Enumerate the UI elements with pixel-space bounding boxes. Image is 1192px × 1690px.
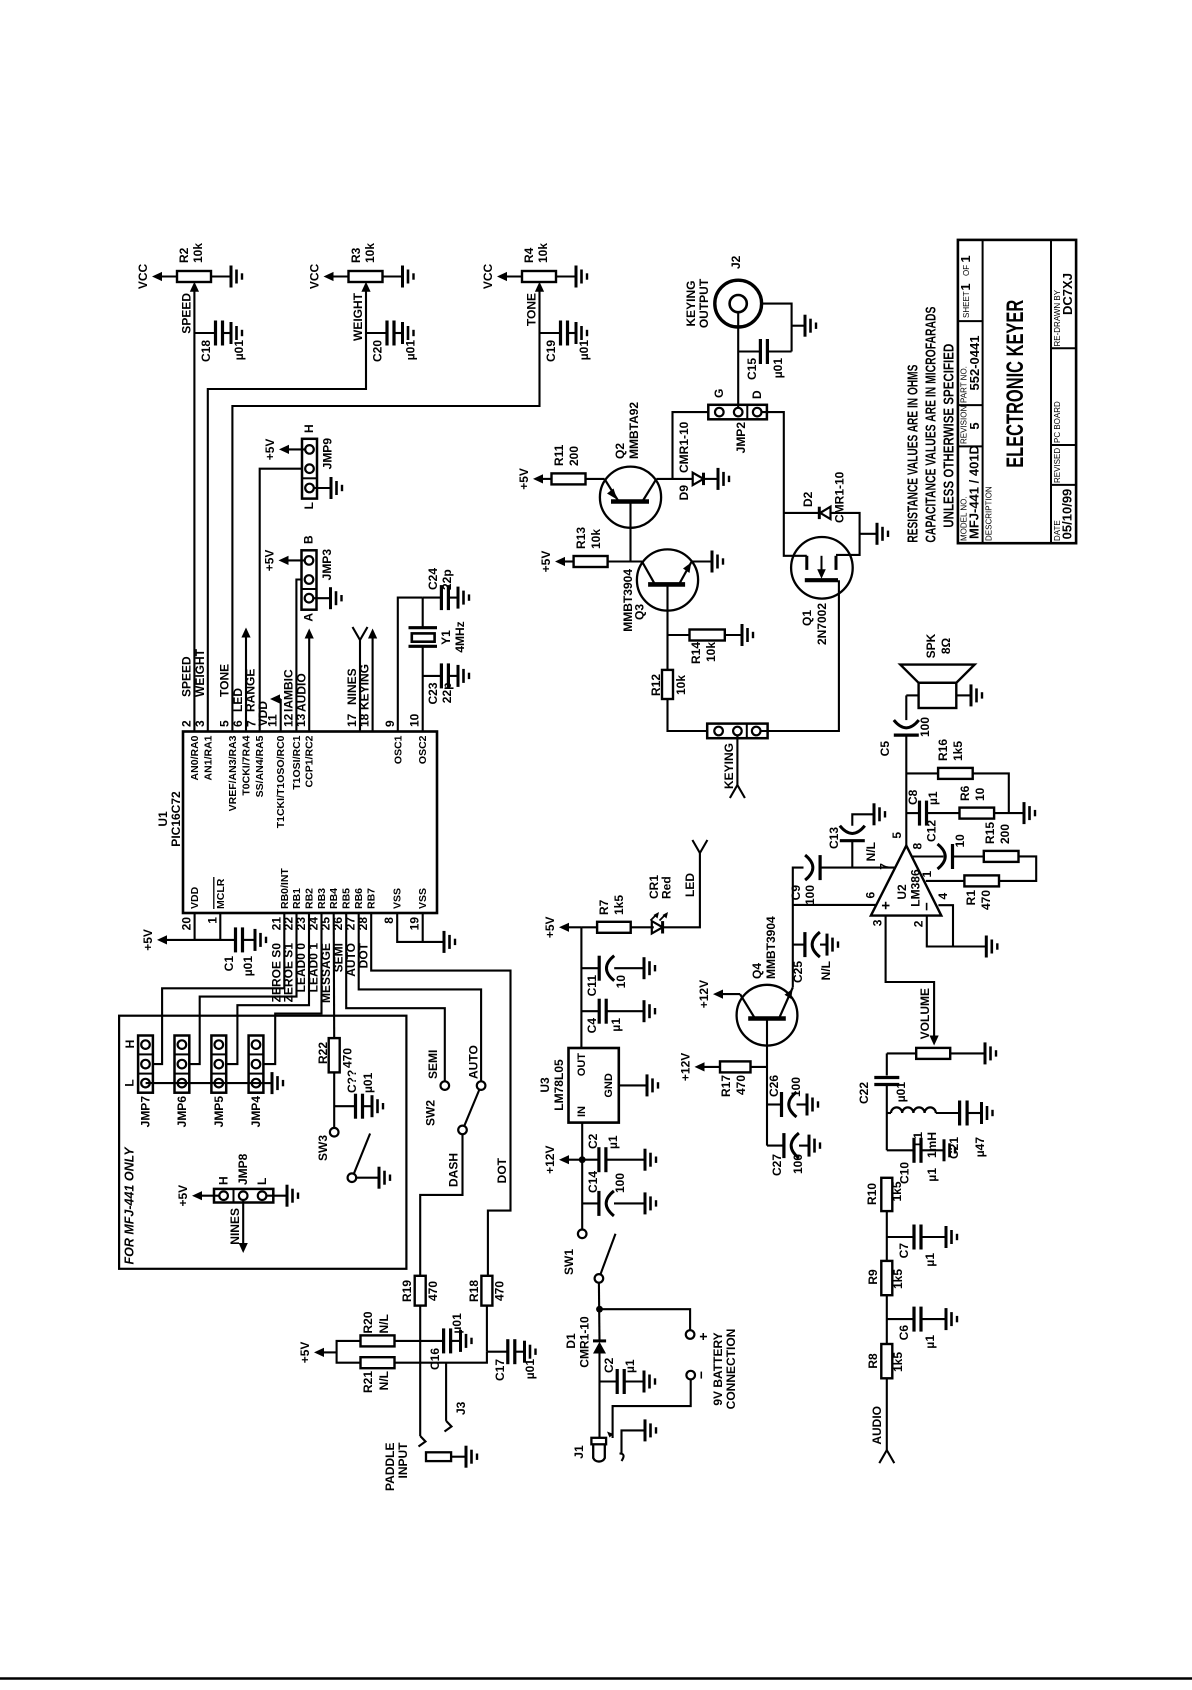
- svg-text:C22: C22: [857, 1082, 871, 1104]
- svg-text:10k: 10k: [704, 642, 718, 662]
- svg-text:22p: 22p: [440, 569, 454, 590]
- resistor R10 1k5: [865, 1178, 904, 1211]
- label LED: [231, 688, 245, 712]
- svg-text:H: H: [302, 424, 316, 433]
- svg-text:ELECTRONIC KEYER: ELECTRONIC KEYER: [1002, 300, 1029, 468]
- switch SW3: [316, 1128, 370, 1182]
- ground at C1: [255, 929, 266, 951]
- svg-text:N/L: N/L: [377, 1314, 391, 1333]
- label AUDIO (U1): [295, 673, 309, 712]
- title block revision: [960, 406, 983, 444]
- svg-text:2: 2: [179, 720, 193, 727]
- svg-text:470: 470: [426, 1281, 440, 1301]
- resistor R12 10k: [649, 670, 688, 699]
- jumper JMP6: [175, 1036, 190, 1128]
- capacitor C24 22p: [423, 568, 458, 610]
- svg-text:VOLUME: VOLUME: [918, 988, 932, 1039]
- power VDD stub (U1 pin11): [256, 694, 281, 731]
- ground at C2 (battery): [644, 1371, 655, 1393]
- wire Q2 collector to D9/JMP2-G node: [656, 412, 715, 479]
- svg-text:R15: R15: [983, 822, 997, 844]
- svg-text:22p: 22p: [440, 683, 454, 704]
- svg-text:+5V: +5V: [543, 916, 557, 938]
- label LED (CR1): [683, 873, 697, 897]
- wire R7 to CR1: [631, 926, 654, 928]
- power +5V (U3 OUT): [543, 916, 581, 938]
- ground at VOLUME: [985, 1042, 996, 1064]
- svg-text:9V BATTERY: 9V BATTERY: [711, 1332, 725, 1405]
- label SEMI (U1): [332, 943, 346, 972]
- wire Q3 emitter to ground: [692, 560, 712, 562]
- capacitor C22 .01uF: [857, 1078, 908, 1105]
- svg-text:C19: C19: [544, 340, 558, 362]
- wire NINES stub (JMP8): [239, 1200, 248, 1253]
- label 9V BATTERY CONNECTION: [711, 1329, 738, 1410]
- svg-text:C6: C6: [897, 1325, 911, 1341]
- svg-text:10k: 10k: [674, 675, 688, 695]
- svg-text:C14: C14: [586, 1171, 600, 1193]
- label RANGE: [244, 669, 258, 712]
- resistor R13 10k: [574, 527, 631, 567]
- svg-text:C26: C26: [767, 1075, 781, 1097]
- svg-text:L: L: [255, 1178, 269, 1185]
- ground at C11: [644, 957, 655, 979]
- svg-text:N/L: N/L: [377, 1371, 391, 1390]
- svg-text:RB6: RB6: [353, 888, 365, 909]
- label AUTO (U1): [344, 943, 358, 977]
- svg-text:T0CKI/7RA4: T0CKI/7RA4: [241, 735, 253, 795]
- wire U3 IN line: [579, 1123, 586, 1230]
- svg-text:R12: R12: [649, 674, 663, 696]
- ground at C16: [461, 1330, 472, 1352]
- svg-text:R19: R19: [400, 1280, 414, 1302]
- title block date: [1053, 489, 1075, 541]
- svg-text:MMBT3904: MMBT3904: [621, 569, 635, 632]
- svg-text:C24: C24: [426, 568, 440, 590]
- connector J2 KEYING OUTPUT: [684, 255, 762, 328]
- capacitor C27 100uF: [767, 1133, 809, 1176]
- svg-text:10: 10: [953, 834, 967, 848]
- label DOT (U1): [357, 942, 371, 968]
- svg-text:SPK: SPK: [924, 633, 938, 658]
- label WEIGHT (near U1): [193, 648, 207, 697]
- U1 pin 5: [217, 720, 239, 811]
- svg-text:KEYING: KEYING: [358, 664, 372, 710]
- svg-text:200: 200: [998, 824, 1012, 844]
- capacitor C23 22p: [423, 663, 458, 704]
- svg-text:4: 4: [936, 893, 950, 900]
- resistor R14 10k: [668, 630, 743, 665]
- svg-text:RB0/INT: RB0/INT: [279, 868, 291, 909]
- label SPEED (near R2): [180, 293, 194, 334]
- svg-text:C8: C8: [906, 789, 920, 805]
- capacitor C1 .01uF: [222, 927, 255, 976]
- capacitor C10 .1uF: [887, 1138, 944, 1184]
- switch SW1: [562, 1230, 616, 1283]
- svg-text:C17: C17: [493, 1359, 507, 1381]
- svg-text:+12V: +12V: [697, 980, 711, 1008]
- resistor R22 470: [316, 1038, 355, 1072]
- svg-text:U2: U2: [895, 884, 909, 900]
- svg-text:1: 1: [205, 917, 219, 924]
- svg-text:CMR1-10: CMR1-10: [833, 471, 847, 523]
- capacitor C13 N/L: [827, 814, 878, 867]
- wire battery + branch: [600, 1309, 691, 1330]
- capacitor C21 .47uF: [947, 1101, 987, 1160]
- wire R16/R6 to ground: [973, 773, 1009, 813]
- label WEIGHT (near R3): [351, 292, 365, 341]
- svg-text:DOT: DOT: [495, 1157, 509, 1183]
- svg-text:R2: R2: [177, 247, 191, 263]
- svg-text:JMP2: JMP2: [734, 422, 748, 454]
- resistor R8 1k5: [866, 1344, 905, 1378]
- jumper JMP7: [123, 1036, 153, 1128]
- ground at U3 GND: [619, 1074, 658, 1096]
- ground at C??: [372, 1095, 383, 1117]
- wire +5V to U1 VDD/MCLR: [195, 913, 236, 940]
- wire OSC1 (U1 pin9): [398, 598, 423, 732]
- svg-text:C18: C18: [199, 340, 213, 362]
- svg-text:6: 6: [864, 892, 878, 899]
- svg-text:C15: C15: [745, 358, 759, 380]
- svg-text:VCC: VCC: [136, 264, 150, 290]
- power +12V (Q4): [697, 980, 723, 1008]
- jumper JMP9: [302, 424, 335, 509]
- svg-text:1k5: 1k5: [891, 1352, 905, 1372]
- svg-text:R1: R1: [964, 890, 978, 906]
- svg-text:H: H: [217, 1176, 231, 1185]
- ground at C6: [946, 1308, 957, 1330]
- svg-text:R10: R10: [865, 1183, 879, 1205]
- wire audio line (pot to C22): [886, 1053, 888, 1075]
- capacitor C25 N/L: [791, 932, 833, 983]
- ground at R3: [383, 266, 414, 288]
- power +12V (R17): [679, 1053, 721, 1081]
- svg-text:SS/AN4/RA5: SS/AN4/RA5: [254, 735, 266, 797]
- svg-text:RB4: RB4: [328, 888, 340, 909]
- U1 pin 8: [382, 888, 404, 924]
- svg-text:PC BOARD: PC BOARD: [1053, 401, 1062, 443]
- wire R9 to C6/R8: [886, 1295, 888, 1344]
- svg-text:470: 470: [493, 1281, 507, 1301]
- microcontroller U1 PIC16C72: [156, 732, 437, 914]
- U1 pin 17: [345, 713, 359, 727]
- power +5V (R20/R21): [298, 1342, 337, 1364]
- power +5V (JMP3): [263, 550, 305, 572]
- svg-text:C4: C4: [585, 1018, 599, 1034]
- svg-text:9: 9: [383, 720, 397, 727]
- svg-text:05/10/99: 05/10/99: [1060, 489, 1075, 540]
- label NINES (JMP8): [228, 1208, 242, 1245]
- wire R20/R21 to +5V: [337, 1341, 361, 1363]
- svg-text:R8: R8: [866, 1353, 880, 1369]
- wire LED net stub (U1 pin6): [241, 628, 250, 732]
- svg-text:H: H: [123, 1040, 137, 1049]
- power +5V (R11): [517, 468, 552, 490]
- U1 pin 21: [269, 868, 291, 931]
- svg-text:JMP6: JMP6: [175, 1096, 189, 1128]
- title block re-drawn by: [1053, 273, 1075, 346]
- svg-text:+12V: +12V: [543, 1146, 557, 1174]
- label LEAD0 1: [307, 943, 321, 993]
- power +5V (U1): [141, 929, 195, 951]
- jumper JMP3: [302, 535, 335, 622]
- svg-text:DASH: DASH: [447, 1153, 461, 1187]
- diode D9 CMR1-10: [673, 421, 719, 500]
- ground at C14: [645, 1192, 656, 1214]
- svg-text:200: 200: [567, 446, 581, 466]
- svg-text:T1CKI/T1OSO/RC0: T1CKI/T1OSO/RC0: [275, 735, 287, 828]
- svg-text:Y1: Y1: [439, 630, 453, 645]
- ground at R4: [556, 266, 587, 288]
- svg-text:1: 1: [920, 871, 934, 878]
- wire OSC2 (U1 pin10): [422, 598, 424, 732]
- label LEAD0 0: [294, 943, 308, 993]
- wire R8 to AUDIO: [879, 1378, 894, 1463]
- svg-text:C11: C11: [585, 975, 599, 997]
- svg-text:G: G: [712, 389, 726, 398]
- U1 pin 24: [307, 888, 329, 931]
- svg-text:µ01: µ01: [577, 340, 591, 361]
- ground at R2: [211, 266, 242, 288]
- wire U2 pin3 to VOLUME pot: [886, 916, 939, 1046]
- svg-text:TONE: TONE: [525, 293, 539, 326]
- resistor R18 470: [467, 1276, 507, 1306]
- label ZEROE S1: [282, 943, 296, 1003]
- svg-text:µ01: µ01: [894, 1082, 908, 1103]
- jack J3 contact hook: [445, 1401, 469, 1431]
- svg-text:VCC: VCC: [481, 264, 495, 290]
- svg-text:+5V: +5V: [298, 1342, 312, 1364]
- transistor Q2 MMBTA92: [600, 402, 661, 528]
- svg-text:+5V: +5V: [263, 439, 277, 461]
- svg-text:SEMI: SEMI: [426, 1050, 440, 1079]
- box FOR MFJ-441 ONLY: [119, 1016, 406, 1269]
- resistor R9 1k5: [866, 1261, 905, 1295]
- svg-text:Q2: Q2: [613, 443, 627, 459]
- svg-text:µ01: µ01: [771, 358, 785, 379]
- svg-text:CAPACITANCE VALUES ARE IN MICR: CAPACITANCE VALUES ARE IN MICROFARADS: [923, 307, 940, 543]
- ground at C23: [458, 665, 469, 687]
- svg-text:PADDLE: PADDLE: [383, 1443, 397, 1491]
- svg-text:10: 10: [973, 787, 987, 801]
- svg-text:R14: R14: [689, 642, 703, 664]
- power +5V (JMP9): [263, 439, 305, 461]
- svg-text:N/L: N/L: [819, 961, 833, 980]
- jumper KEYING header: [707, 724, 767, 739]
- wire RB0 ZEROE S0 (pin21 to JMP7): [153, 913, 284, 1064]
- svg-text:MCLR: MCLR: [215, 878, 227, 909]
- U1 pin 23: [294, 888, 316, 931]
- label TONE (near U1): [218, 664, 232, 697]
- svg-text:JMP3: JMP3: [320, 549, 334, 581]
- ground at J1: [645, 1419, 656, 1441]
- svg-text:4MHz: 4MHz: [453, 621, 467, 652]
- ground at D9: [718, 468, 729, 490]
- svg-text:IN: IN: [576, 1106, 588, 1117]
- U1 pin 18: [358, 713, 372, 727]
- svg-text:SHEET: SHEET: [962, 291, 971, 318]
- wire Q3 base to R14/R12: [666, 584, 668, 699]
- U2 pin 5 output wire: [890, 695, 906, 845]
- potentiometer R4 10k TONE: [522, 243, 556, 292]
- svg-text:R13: R13: [574, 527, 588, 549]
- label ZEROE S0: [270, 943, 284, 1003]
- svg-text:+: +: [878, 901, 895, 910]
- svg-text:1k5: 1k5: [951, 741, 965, 761]
- svg-text:U1: U1: [156, 811, 170, 827]
- svg-text:C2: C2: [602, 1357, 616, 1373]
- svg-text:R6: R6: [958, 785, 972, 801]
- svg-text:µ1: µ1: [609, 1018, 623, 1032]
- ground at C26: [807, 1094, 818, 1116]
- svg-text:UNLESS OTHERWISE SPECIFIED: UNLESS OTHERWISE SPECIFIED: [941, 344, 958, 528]
- wire R12 to KEYING jumper: [668, 699, 715, 731]
- wire J3 stub: [445, 1363, 447, 1421]
- svg-text:µ01: µ01: [232, 340, 246, 361]
- svg-text:R18: R18: [467, 1280, 481, 1302]
- wire battery - branch: [613, 1379, 691, 1438]
- svg-text:JMP7: JMP7: [139, 1096, 153, 1128]
- svg-text:552-0441: 552-0441: [967, 336, 982, 391]
- svg-text:JMP4: JMP4: [249, 1096, 263, 1128]
- resistor R19 470: [400, 1276, 440, 1306]
- wire KEYING stub (jumper): [730, 736, 745, 798]
- svg-text:A: A: [302, 613, 316, 622]
- svg-text:MFJ-441 / 401D: MFJ-441 / 401D: [967, 445, 982, 539]
- transistor Q1 2N7002 MOSFET: [791, 537, 853, 645]
- svg-text:5: 5: [890, 832, 904, 839]
- svg-text:1: 1: [958, 255, 973, 262]
- svg-text:WEIGHT: WEIGHT: [193, 648, 207, 697]
- resistor R21 N/L: [361, 1357, 395, 1393]
- svg-text:CONNECTION: CONNECTION: [724, 1329, 738, 1410]
- wire U1 VSS to ground: [397, 913, 444, 942]
- svg-text:µ1: µ1: [926, 791, 940, 805]
- svg-text:OF: OF: [962, 265, 971, 276]
- svg-text:OUTPUT: OUTPUT: [697, 278, 711, 328]
- svg-text:µ47: µ47: [973, 1137, 987, 1158]
- svg-text:C20: C20: [371, 340, 385, 362]
- wire DOT node to R18: [486, 1306, 488, 1352]
- svg-text:SPEED: SPEED: [180, 656, 194, 697]
- svg-text:R4: R4: [522, 247, 536, 263]
- svg-text:SW3: SW3: [316, 1135, 330, 1161]
- U1 pin 22: [282, 888, 304, 931]
- resistor R16 1k5: [906, 739, 972, 779]
- svg-text:1: 1: [958, 283, 973, 290]
- wire SEMI (pin26 to SW2): [346, 913, 445, 1081]
- svg-text:CCP1/RC2: CCP1/RC2: [304, 735, 316, 787]
- ground at U1 VSS: [444, 931, 455, 953]
- svg-text:PIC16C72: PIC16C72: [169, 791, 183, 847]
- ground at C24: [458, 587, 469, 609]
- svg-text:OSC2: OSC2: [417, 735, 429, 764]
- svg-text:J2: J2: [729, 255, 743, 269]
- ground at C13: [874, 803, 885, 825]
- svg-text:C12: C12: [925, 820, 939, 842]
- svg-text:R22: R22: [316, 1042, 330, 1064]
- svg-text:JMP5: JMP5: [212, 1096, 226, 1128]
- diode D1 CMR1-10: [564, 1316, 606, 1368]
- wire Q4 emitter rail: [793, 868, 804, 988]
- capacitor C8 .1uF: [906, 789, 960, 825]
- label VOLUME: [918, 988, 932, 1039]
- svg-text:LM78L05: LM78L05: [552, 1059, 566, 1111]
- potentiometer R2 10k SPEED: [177, 243, 211, 292]
- svg-text:SPEED: SPEED: [180, 293, 194, 334]
- svg-text:DESCRIPTION: DESCRIPTION: [985, 486, 994, 541]
- title block frame: [958, 240, 1076, 543]
- U1 pin 20: [180, 886, 202, 930]
- svg-text:JMP8: JMP8: [236, 1153, 250, 1185]
- svg-text:RB1: RB1: [291, 888, 303, 909]
- svg-text:C25: C25: [791, 961, 805, 983]
- ground at C7: [946, 1226, 957, 1248]
- svg-text:CMR1-10: CMR1-10: [578, 1316, 592, 1368]
- label IAMBIC: [282, 669, 296, 712]
- ground at R14: [742, 624, 753, 646]
- svg-text:C5: C5: [878, 741, 892, 757]
- svg-text:DOT: DOT: [357, 942, 371, 968]
- svg-text:OUT: OUT: [576, 1053, 588, 1077]
- svg-text:J3: J3: [454, 1401, 468, 1415]
- wire AUDIO net stub (U1 pin13): [305, 629, 314, 732]
- wire SPEED net (U1 pin2 to R2 wiper): [193, 291, 195, 732]
- label AUDIO: [870, 1406, 884, 1445]
- U2 pin labels: [864, 843, 951, 928]
- svg-text:L: L: [123, 1079, 137, 1086]
- svg-text:C7: C7: [897, 1243, 911, 1259]
- resistor R17 470: [719, 1061, 767, 1097]
- regulator U3 LM78L05: [538, 1048, 619, 1123]
- svg-text:SW2: SW2: [424, 1100, 438, 1126]
- label TONE (near R4): [525, 293, 539, 326]
- svg-text:AUDIO: AUDIO: [870, 1406, 884, 1445]
- wire MESSAGE (pin25 to R22): [333, 913, 336, 1038]
- svg-text:RB2: RB2: [304, 888, 316, 909]
- U1 pin 13: [294, 713, 316, 787]
- ground at C19: [576, 322, 587, 344]
- wire RANGE net (U1 pin7 to JMP9): [260, 469, 304, 732]
- U1 pin 6: [231, 720, 253, 796]
- label DOT: [495, 1157, 509, 1183]
- svg-text:VDD: VDD: [189, 886, 201, 909]
- ground at C25: [827, 934, 838, 956]
- resistor R20 N/L: [361, 1311, 395, 1346]
- svg-text:10k: 10k: [536, 243, 550, 263]
- ground at C2 (U3): [645, 1149, 656, 1171]
- label SPEED (near U1): [180, 656, 194, 697]
- label NINES (U1): [345, 668, 359, 705]
- svg-text:10k: 10k: [191, 243, 205, 263]
- svg-text:C10: C10: [898, 1162, 912, 1184]
- op-amp U2 LM386: [871, 846, 941, 916]
- svg-text:470: 470: [979, 890, 993, 910]
- svg-text:C27: C27: [770, 1154, 784, 1176]
- wire R20 to DASH line: [395, 1340, 421, 1342]
- svg-text:5: 5: [217, 720, 231, 727]
- speaker SPK 8ohm: [900, 633, 974, 708]
- ground at paddle jack: [451, 1446, 477, 1468]
- capacitor C11 10uF: [581, 956, 644, 997]
- svg-text:L: L: [302, 502, 316, 509]
- svg-text:AUTO: AUTO: [467, 1045, 481, 1079]
- power +12V (U3 IN): [543, 1146, 582, 1174]
- inductor L1 1mH: [887, 1107, 960, 1158]
- U1 pin 25: [319, 888, 341, 931]
- svg-text:B: B: [302, 535, 316, 544]
